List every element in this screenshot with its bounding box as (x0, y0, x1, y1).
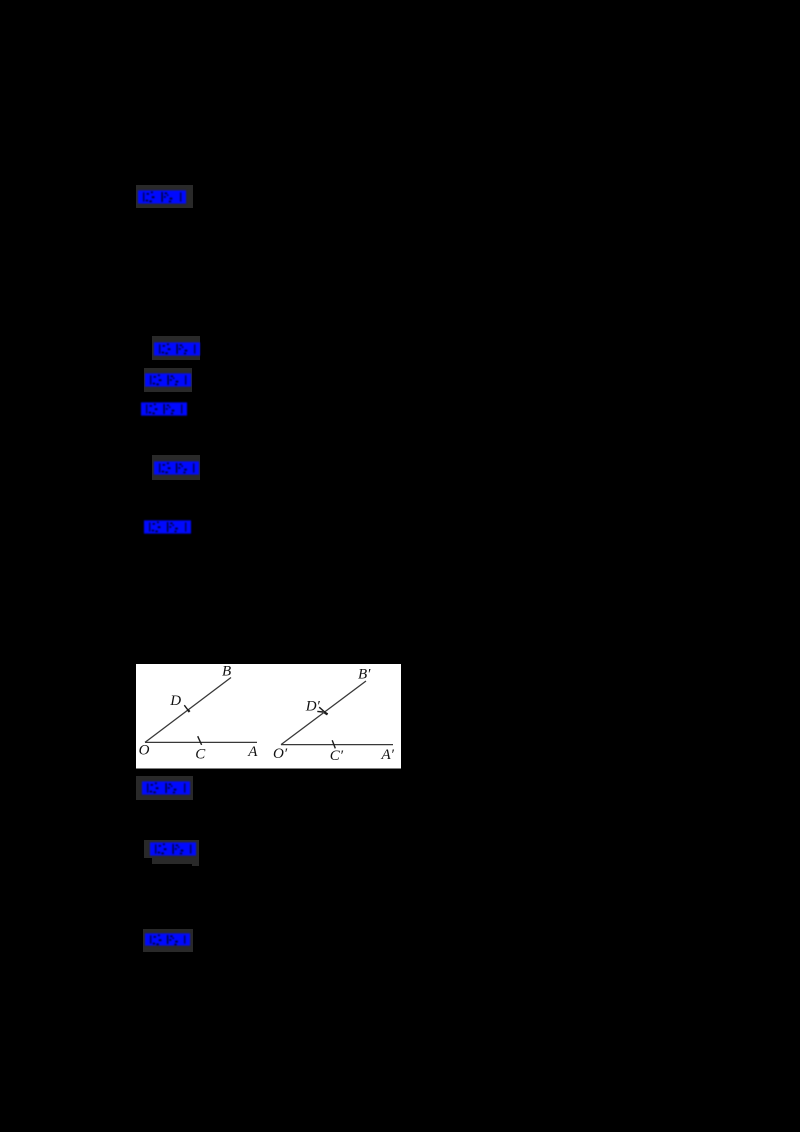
tick mark at C on ray OA (198, 736, 202, 745)
svg-text:B: B (222, 664, 231, 680)
blue tag label 3 (145, 373, 191, 387)
blue tag label 6 (no highlight) (144, 520, 191, 534)
wire: left horizontal ray O to A (145, 741, 257, 743)
blue tag label 7 (142, 781, 190, 795)
highlight box behind label 2 (152, 336, 200, 360)
blue tag label 8 (150, 842, 196, 856)
svg-text:A′: A′ (381, 747, 395, 763)
wire: right horizontal ray O' to A' (281, 744, 393, 746)
cross mark at D' on ray O'B' (319, 707, 327, 714)
blue tag label 4 (no highlight) (141, 402, 187, 416)
blue tag label 2 (154, 342, 200, 356)
highlight box behind label 1 (136, 185, 193, 208)
wire: right slanted ray O' to B' (281, 681, 366, 745)
highlight corner fragment under label 8 (192, 858, 199, 866)
highlight box behind label 9 (143, 929, 193, 952)
svg-text:O′: O′ (273, 746, 288, 762)
svg-text:C′: C′ (330, 748, 344, 764)
figure panel: two angle diagrams (136, 664, 401, 769)
svg-text:B′: B′ (358, 666, 371, 682)
svg-text:D: D (169, 693, 181, 709)
svg-text:C: C (195, 747, 206, 763)
svg-text:O: O (139, 743, 150, 759)
blue tag label 1 (138, 190, 186, 204)
svg-text:A: A (247, 744, 258, 760)
svg-text:D′: D′ (305, 699, 321, 715)
wire: left slanted ray O to B (145, 678, 231, 743)
tick mark at C' on ray O'A' (332, 740, 335, 748)
tick mark at D on ray OB (184, 705, 189, 711)
highlight box behind label 3 (144, 368, 192, 392)
highlight box behind label 7 (136, 776, 193, 800)
blue tag label 5 (154, 461, 199, 475)
highlight wrap fragment under label 8 (152, 857, 192, 864)
highlight box behind label 5 (152, 455, 200, 480)
highlight box behind label 8 (144, 840, 199, 858)
blue tag label 9 (145, 933, 190, 946)
